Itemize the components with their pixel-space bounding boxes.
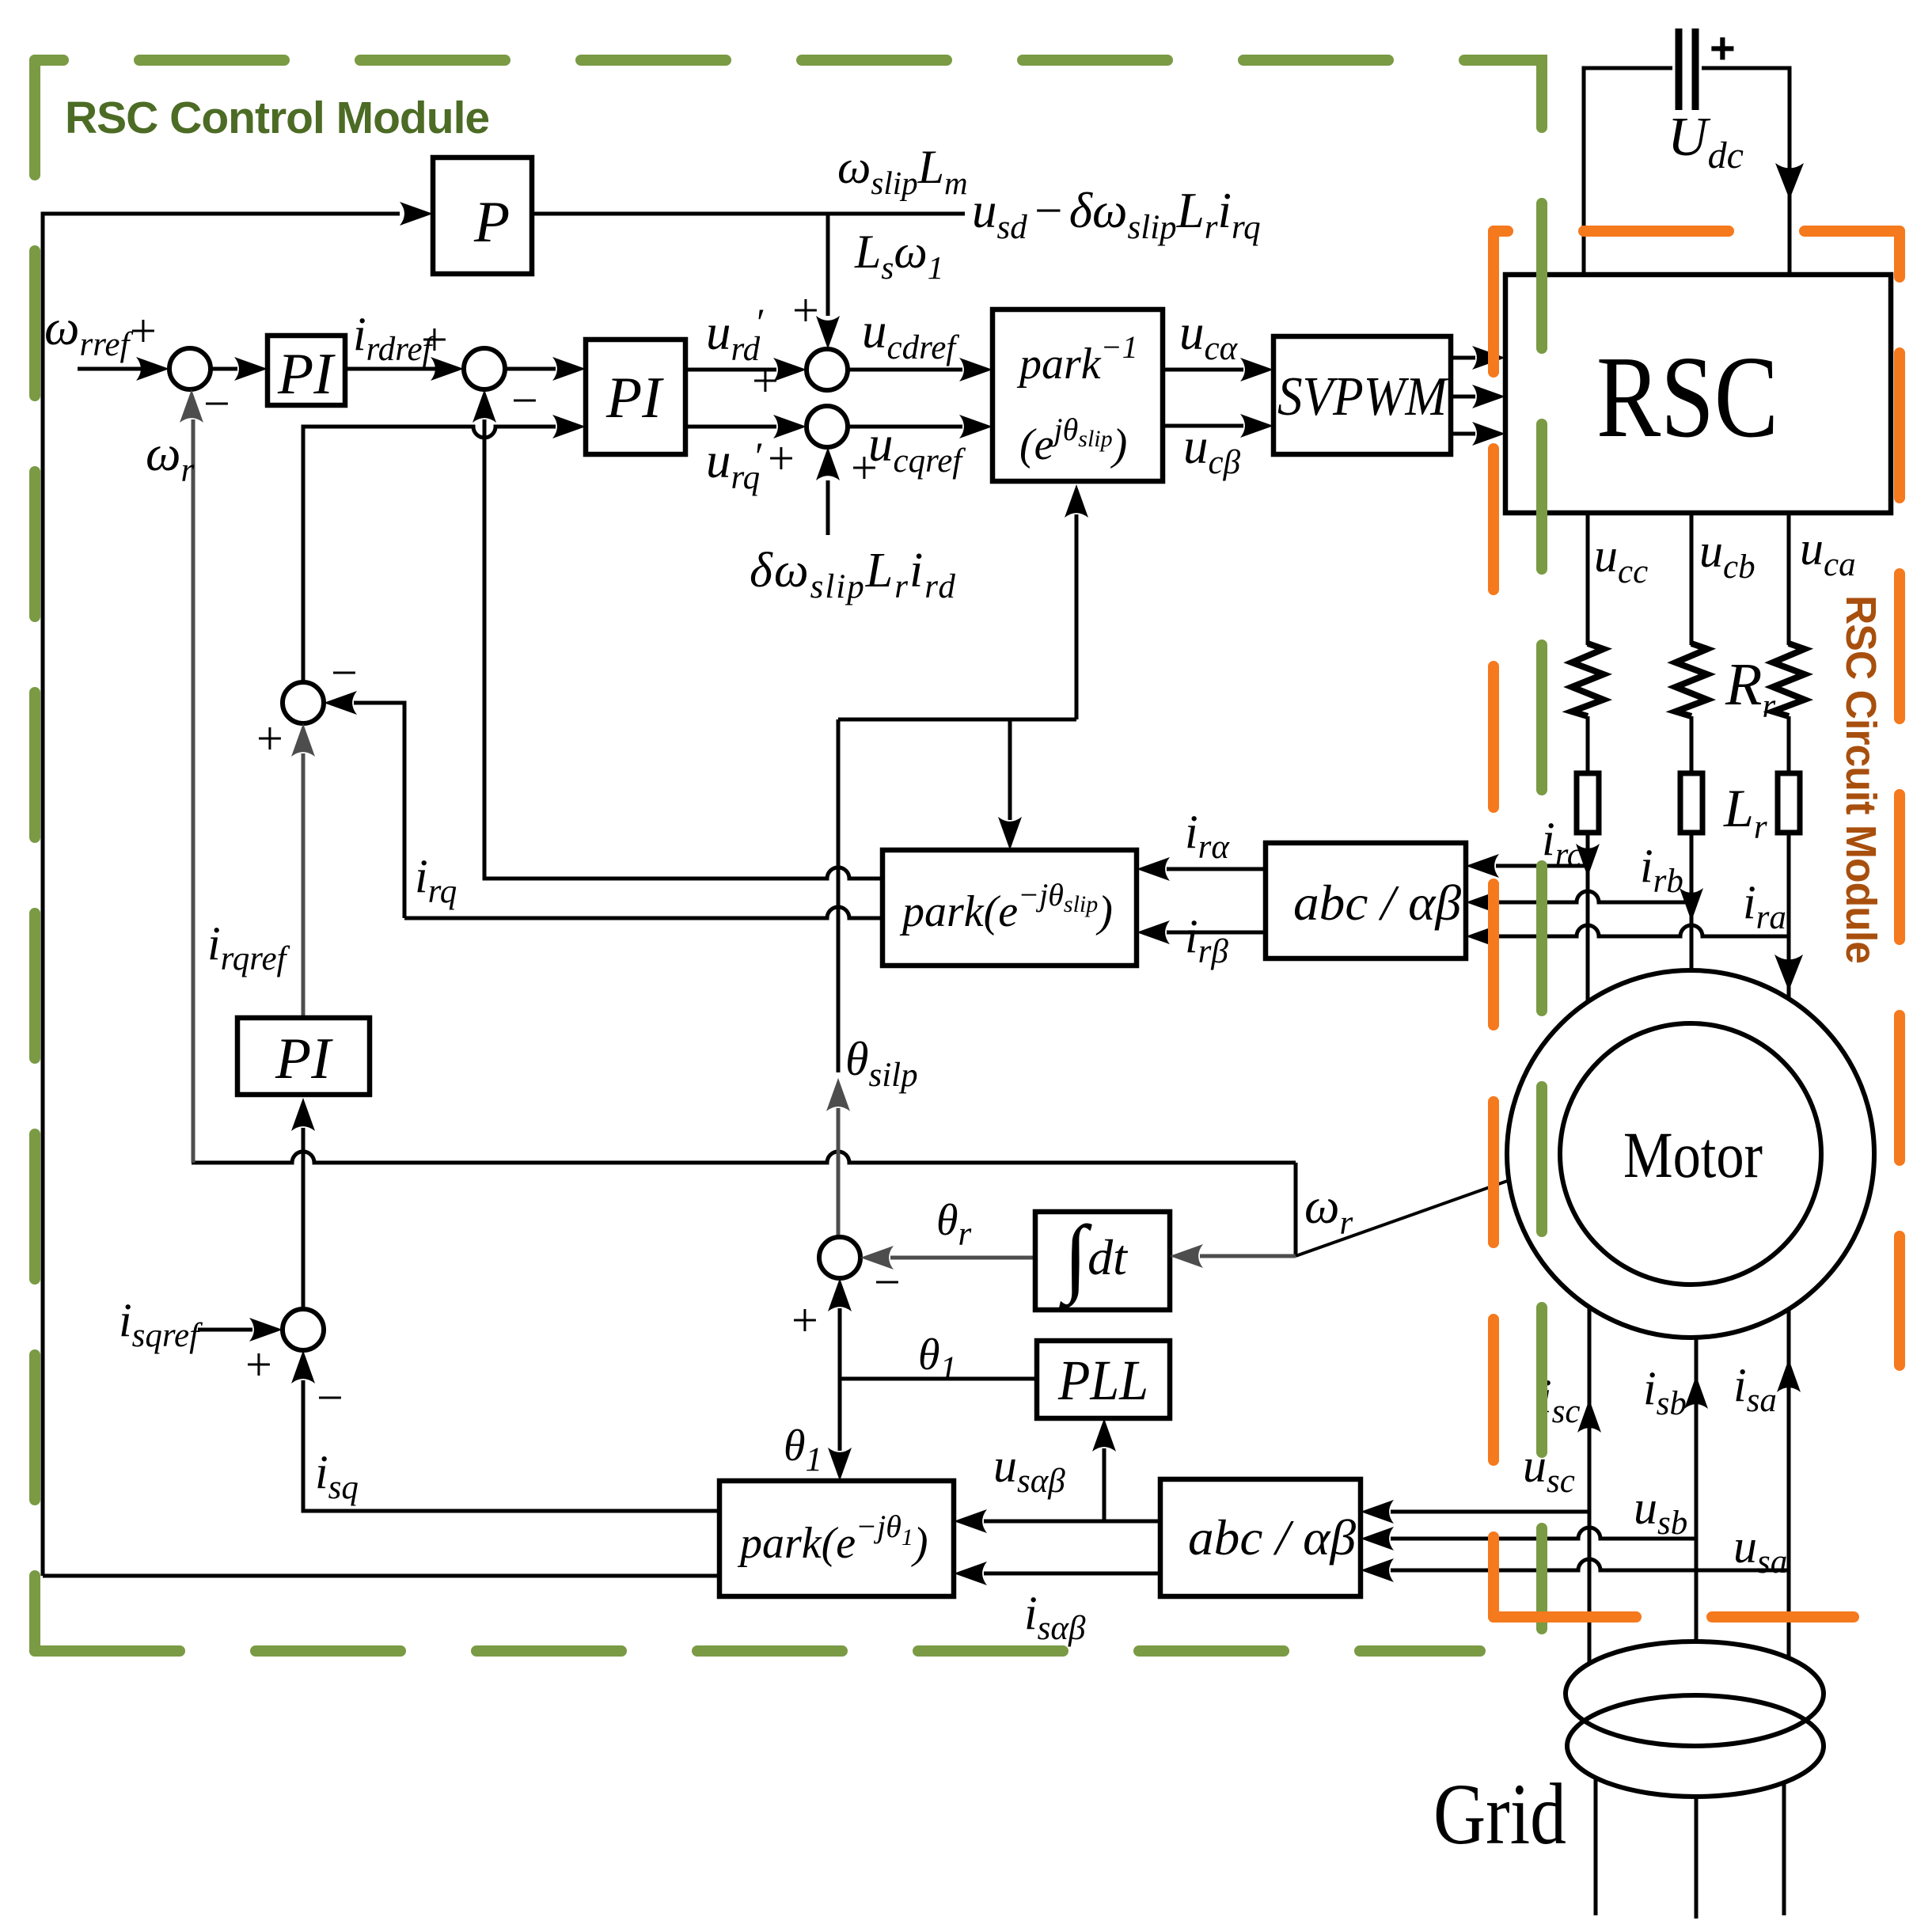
svg-text:uca: uca: [1800, 522, 1856, 583]
svg-text:θsilp: θsilp: [845, 1033, 918, 1094]
svg-text:usc: usc: [1523, 1440, 1575, 1500]
wire theta1 up into sum6: [838, 1308, 842, 1379]
wire a inductor to motor with arrow: [1787, 833, 1791, 999]
arrow gray omega_r into sum1: [180, 389, 203, 423]
summing junction sum6 theta: [819, 1237, 860, 1278]
svg-text:ira: ira: [1743, 876, 1786, 936]
wire arrow into P: [400, 202, 433, 226]
node theta_slip gray part with arrow: [837, 1108, 841, 1237]
svg-text:isq: isq: [315, 1446, 359, 1506]
resistor R_r phase a: [1773, 643, 1805, 716]
wire i_rq horizontal from park with hop: [404, 907, 882, 918]
svg-text:RSC Circuit Module: RSC Circuit Module: [1837, 595, 1885, 963]
wire tap i_rc into abc1: [1496, 864, 1588, 868]
wire i_rq feedback into sum5: [354, 703, 404, 918]
wire SVPWM to RSC 2: [1451, 395, 1475, 399]
wire i_rqref gray from PI3 to sum5: [302, 753, 306, 1018]
svg-text:isb: isb: [1643, 1362, 1687, 1422]
block PI1: [268, 336, 345, 405]
svg-text:irα: irα: [1185, 806, 1230, 866]
svg-text:ucα: ucα: [1179, 305, 1239, 367]
wire abc2 to park1 upper: [984, 1520, 1160, 1524]
svg-text:isa: isa: [1733, 1359, 1777, 1419]
inductor L_r phase a: [1778, 773, 1800, 833]
svg-text:ucb: ucb: [1699, 525, 1756, 586]
wire stator phase b motor to transformer: [1695, 1338, 1699, 1643]
svg-text:irβ: irβ: [1185, 910, 1228, 970]
wire u_salphabeta up into PLL: [1103, 1448, 1106, 1521]
wire w_rref into sum1: [78, 367, 142, 371]
block park e-jtheta_slip: [882, 850, 1137, 966]
wire theta1 branch to PLL: [840, 1377, 1037, 1381]
svg-text:PLL: PLL: [1057, 1349, 1148, 1412]
svg-text:(ejθslip): (ejθslip): [1019, 412, 1127, 469]
wire theta_slip top run to park-1: [838, 514, 1076, 719]
svg-text:park(e−jθ1): park(e−jθ1): [737, 1509, 928, 1568]
resistor R_r phase c: [1572, 643, 1604, 716]
wire sum3 to park-1: [848, 368, 962, 372]
svg-text:θ1: θ1: [918, 1330, 957, 1387]
svg-text:park−1: park−1: [1016, 329, 1138, 389]
svg-text:+: +: [768, 432, 795, 484]
svg-text:irb: irb: [1640, 840, 1683, 900]
motor inner circle: [1560, 1023, 1821, 1285]
block park1 e-jtheta1: [719, 1481, 954, 1596]
svg-text:Motor: Motor: [1623, 1118, 1763, 1191]
capacitor U_dc plates: [1679, 28, 1695, 110]
svg-text:−: −: [511, 374, 538, 427]
wire omega into integrator gray: [1200, 1254, 1296, 1258]
svg-text:PI: PI: [605, 366, 664, 431]
wire compensation into sum4 from below: [826, 480, 830, 535]
wire abc1 to park i_ralpha: [1167, 867, 1266, 871]
RSC Control Module dashed green border left+bottom: [29, 60, 40, 1651]
wire theta_r gray from integrator to sum6: [890, 1256, 1035, 1260]
svg-text:RSC: RSC: [1596, 332, 1778, 462]
svg-text:Grid: Grid: [1433, 1766, 1566, 1862]
wire stator phase a motor to transformer: [1787, 1309, 1791, 1658]
RSC Control Module dashed green border top+right: [35, 60, 1542, 1629]
svg-text:isqref: isqref: [119, 1294, 203, 1354]
block RSC: [1505, 275, 1891, 513]
wire i_rd feedback from park to sum2 with hop: [484, 419, 882, 879]
svg-text:abc / αβ: abc / αβ: [1293, 875, 1461, 931]
RSC Circuit Module dashed orange border top: [1494, 226, 1900, 237]
svg-text:PI: PI: [275, 1027, 333, 1091]
node theta_slip vertical line with hops black part: [837, 719, 841, 1072]
svg-text:SVPWM: SVPWM: [1277, 366, 1449, 427]
wire c inductor to motor with arrow at tap: [1586, 833, 1590, 1025]
wire sum7 output up into PI3 (hop drawn on omega wire): [302, 1128, 306, 1309]
svg-text:abc / αβ: abc / αβ: [1188, 1509, 1356, 1566]
wire P output to fraction and down: [532, 214, 965, 316]
wire SVPWM to RSC 3: [1451, 432, 1475, 436]
svg-text:θ1: θ1: [784, 1421, 822, 1478]
wire park-1 to SVPWM alpha: [1163, 368, 1243, 372]
wire park1 lower output to left trunk: [43, 1574, 719, 1578]
wire i_sqref into sum7: [198, 1328, 252, 1332]
inductor L_r phase c: [1577, 773, 1599, 833]
transformer coil lower: [1567, 1695, 1824, 1797]
svg-text:usd − δωslipLrirq: usd − δωslipLrirq: [972, 183, 1261, 246]
summing junction sum7: [283, 1309, 324, 1350]
transformer coil upper: [1566, 1641, 1824, 1746]
svg-text:urq: urq: [706, 433, 760, 496]
wire grid phase b below transformer: [1695, 1797, 1699, 1919]
block abc/alphabeta 1: [1266, 843, 1466, 958]
wire PI1 to sum2: [345, 367, 435, 371]
capacitor U_dc right wire with arrow: [1702, 68, 1790, 275]
svg-text:ωslipLm: ωslipLm: [837, 141, 968, 201]
RSC Circuit Module dashed orange border bottom+left: [1494, 1611, 1854, 1622]
svg-text:Udc: Udc: [1668, 107, 1744, 176]
summing junction sum4: [807, 406, 848, 447]
resistor R_r phase b: [1676, 643, 1707, 716]
svg-text:+: +: [792, 284, 819, 336]
summing junction sum2: [464, 348, 505, 389]
svg-text:ucβ: ucβ: [1183, 419, 1241, 481]
svg-text:∫dt: ∫dt: [1059, 1208, 1129, 1309]
svg-text:ωrref: ωrref: [44, 300, 133, 363]
svg-text:θr: θr: [936, 1196, 972, 1253]
wire SVPWM to RSC 1: [1451, 356, 1475, 360]
svg-text:−: −: [203, 378, 230, 430]
wire tap i_ra into abc1 with hops: [1496, 925, 1789, 936]
block SVPWM: [1273, 336, 1451, 454]
wire theta_slip branch down into park block: [1008, 719, 1012, 820]
svg-text:−: −: [331, 647, 358, 699]
svg-text:′: ′: [754, 300, 764, 344]
block PI2: [586, 340, 685, 454]
wire from motor corner down to integrator level: [1294, 1163, 1298, 1256]
wire omega_r long feedback with hops: [192, 1152, 1296, 1163]
wire park-1 to SVPWM beta: [1163, 424, 1243, 428]
block PLL: [1037, 1341, 1170, 1418]
capacitor U_dc left wire: [1584, 68, 1672, 275]
svg-text:RSC Control Module: RSC Control Module: [65, 93, 489, 143]
RSC Circuit Module dashed orange border right: [1894, 231, 1905, 1365]
wire sum2 to PI2 d-channel: [505, 367, 556, 371]
summing junction sum3: [807, 349, 848, 390]
svg-text:δωslipLrird: δωslipLrird: [750, 544, 957, 605]
motor outer circle: [1507, 970, 1874, 1338]
svg-text:usαβ: usαβ: [993, 1440, 1065, 1500]
svg-text:ωr: ωr: [1304, 1178, 1353, 1242]
wire tap i_rb into abc1 with hop: [1496, 891, 1691, 902]
block abc/alphabeta 2: [1160, 1479, 1361, 1596]
inductor L_r phase b: [1680, 773, 1702, 833]
block PI3: [237, 1018, 370, 1095]
svg-text:+: +: [421, 313, 448, 366]
block integrator: [1035, 1212, 1170, 1310]
wire tap u_sb into abc2 with hop: [1391, 1528, 1696, 1539]
svg-text:+: +: [791, 1294, 818, 1346]
svg-text:−: −: [317, 1372, 344, 1424]
wire tap u_sc into abc2: [1391, 1510, 1589, 1514]
svg-text:+: +: [130, 305, 157, 357]
wire b inductor to motor with arrow at tap: [1690, 833, 1694, 1023]
wire rotor phase b from RSC: [1690, 513, 1694, 645]
wire PI2 to sum4: [685, 425, 776, 429]
svg-text:ωr: ωr: [146, 426, 194, 489]
summing junction sum5: [283, 682, 324, 723]
wire tap u_sa into abc2 with hops: [1391, 1559, 1789, 1570]
wire theta1 down into park1: [838, 1379, 842, 1451]
svg-text:usb: usb: [1634, 1482, 1687, 1542]
svg-text:P: P: [473, 190, 510, 255]
wire sum4 to park-1: [848, 425, 962, 429]
wire grid phase c below transformer: [1594, 1778, 1598, 1915]
svg-text:usa: usa: [1733, 1520, 1787, 1581]
svg-text:irqref: irqref: [207, 917, 290, 977]
svg-text:isαβ: isαβ: [1024, 1587, 1086, 1647]
wire abc1 to park i_rbeta: [1167, 931, 1266, 935]
wire c resistor to inductor: [1586, 716, 1590, 773]
svg-text:ucdref: ucdref: [862, 303, 959, 366]
block P: [433, 158, 532, 274]
svg-text:PI: PI: [277, 342, 336, 407]
RSC Control Module dashed green border corner dash top-right: [1536, 60, 1547, 105]
wire i_sq from park1 up into sum7: [303, 1380, 719, 1511]
wire b resistor to inductor: [1690, 716, 1694, 773]
svg-text:ucc: ucc: [1594, 529, 1648, 590]
svg-text:irq: irq: [415, 850, 457, 910]
wire diagonal from motor: [1296, 1156, 1577, 1256]
svg-text:+: +: [245, 1338, 272, 1391]
wire grid phase a below transformer: [1782, 1782, 1786, 1915]
wire arrow down into sum3: [816, 316, 840, 349]
wire stator phase c motor to transformer: [1588, 1307, 1592, 1664]
svg-text:park(e−jθslip): park(e−jθslip): [899, 877, 1113, 936]
wire sum1 to PI1: [211, 367, 237, 371]
wire rotor phase a from RSC: [1787, 513, 1791, 645]
wire a resistor to inductor: [1787, 716, 1791, 773]
svg-text:′: ′: [753, 434, 762, 478]
svg-text:+: +: [1710, 23, 1736, 73]
svg-text:Lr: Lr: [1723, 778, 1767, 846]
wire rotor phase c from RSC: [1586, 513, 1590, 645]
wire abc2 to park1 lower: [984, 1572, 1160, 1576]
svg-text:+: +: [256, 712, 283, 765]
wire PI2 to sum3: [685, 368, 776, 372]
wire left vertical trunk: [43, 214, 400, 1576]
summing junction sum1: [169, 348, 211, 389]
wire q-channel from sum5 up and into PI2 with hop over i_rd line: [303, 427, 556, 682]
block park-1: [993, 309, 1163, 481]
svg-text:Lsω1: Lsω1: [854, 226, 943, 286]
